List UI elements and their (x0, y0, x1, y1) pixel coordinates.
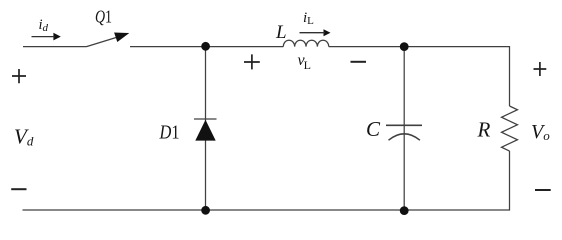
svg-text:C: C (366, 117, 381, 141)
svg-text:iL: iL (303, 10, 314, 27)
svg-text:L: L (275, 22, 287, 43)
svg-text:D1: D1 (159, 123, 180, 144)
svg-text:R: R (477, 118, 491, 142)
svg-text:Q1: Q1 (95, 7, 112, 27)
svg-text:Vd: Vd (14, 125, 34, 149)
svg-text:id: id (39, 17, 49, 34)
svg-text:Vo: Vo (531, 121, 550, 143)
svg-text:vL: vL (298, 52, 311, 72)
